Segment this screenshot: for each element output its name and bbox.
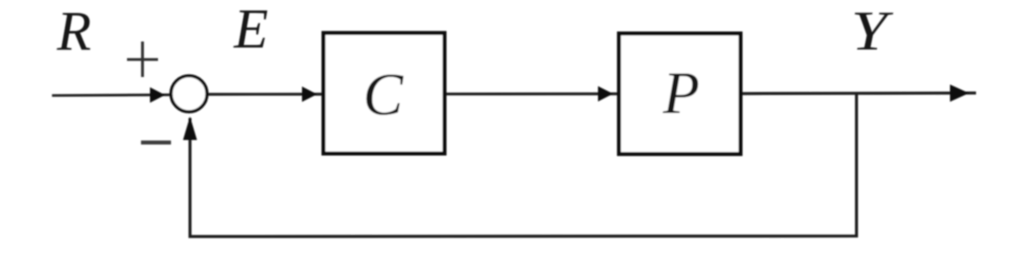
svg-text:R: R [56, 1, 91, 63]
svg-text:C: C [363, 62, 404, 128]
svg-text:E: E [233, 0, 268, 61]
svg-text:P: P [662, 60, 700, 126]
